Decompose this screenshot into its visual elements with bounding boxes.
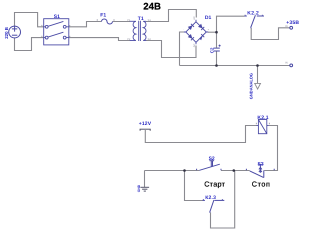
svg-text:24В: 24В (143, 2, 161, 13)
terminal In gnd (290, 64, 293, 67)
diode bridge top-left diode (188, 25, 193, 30)
wire relay coil right down to stop rail (264, 126, 277, 171)
pin ticks F1 (97, 19, 114, 20)
wire fuse to transformer P1 (113, 21, 131, 23)
fuse F1 (102, 19, 113, 24)
wire K2.2 blade to +35V terminal (251, 28, 290, 40)
svg-text:Старт: Старт (204, 179, 225, 188)
svg-text:IN: IN (285, 25, 288, 28)
diode bar bottom-left (191, 37, 194, 40)
svg-text:К2.3: К2.3 (205, 195, 216, 201)
svg-text:S3: S3 (258, 161, 264, 167)
wire switch pole2 to transformer P2 (69, 38, 130, 41)
diode bar top-left (191, 24, 194, 27)
svg-text:K2.1: K2.1 (257, 115, 268, 121)
svg-text:GNDANALOG: GNDANALOG (248, 73, 253, 99)
svg-text:S2: S2 (148, 38, 152, 41)
wire source top to switch pole1 (15, 13, 45, 27)
svg-text:AC: AC (193, 43, 196, 47)
svg-text:P2: P2 (127, 38, 131, 41)
svg-text:F1: F1 (100, 13, 106, 19)
wire ground rail (180, 65, 290, 67)
svg-text:-: - (183, 29, 184, 32)
junction node gnd analog (256, 64, 259, 67)
wire K2.3 bottom loop (211, 171, 235, 229)
junction node start left (183, 169, 186, 172)
svg-text:AC: AC (193, 16, 196, 20)
transformer T1 (130, 21, 146, 41)
svg-text:+35В: +35В (286, 20, 299, 26)
svg-text:K2.2: K2.2 (247, 10, 259, 16)
svg-text:S1: S1 (148, 19, 152, 22)
pushbutton S3 stop (246, 165, 274, 178)
wire GND rail to S2 (145, 170, 200, 172)
wire bridge plus to C2 node (208, 31, 217, 33)
wire C2 vertical (216, 32, 218, 65)
wire bridge minus to ground rail (180, 32, 185, 66)
svg-text:P1: P1 (127, 19, 131, 22)
wire source bottom to switch pole2 (15, 38, 45, 51)
power terminal +12V (140, 129, 151, 131)
voltage source 220V (9, 26, 21, 38)
junction node start right (233, 169, 236, 172)
ground GND (140, 187, 149, 191)
ground GNDANALOG (255, 83, 261, 89)
svg-text:+12V: +12V (139, 121, 152, 127)
svg-text:IN: IN (285, 62, 288, 65)
pin ticks K2.1 (256, 123, 269, 124)
wire C2 node up to K2.2 (217, 16, 245, 32)
diode bridge bottom-right diode (200, 36, 203, 41)
diode bridge bottom-left diode (188, 34, 193, 39)
svg-text:GND: GND (137, 184, 141, 192)
wire switch pole1 to fuse (69, 22, 102, 27)
svg-text:S2: S2 (209, 156, 215, 162)
junction node bridge plus (215, 31, 218, 34)
svg-text:T1: T1 (138, 16, 144, 22)
wire GND drop (144, 171, 146, 188)
wire K2.3 branch left drop (185, 171, 203, 201)
wire +12V to relay coil left (145, 126, 256, 143)
svg-text:220 В: 220 В (4, 27, 9, 39)
diode bar top-right (201, 27, 204, 30)
diode bridge top-right diode (198, 24, 203, 29)
relay contact K2.3 (203, 199, 225, 213)
wire S2 to S3 (221, 170, 250, 172)
svg-text:C2: C2 (210, 47, 215, 53)
pushbutton S2 start (197, 161, 221, 171)
junction node C2 bottom (215, 64, 218, 67)
diode bar bottom-right (201, 34, 204, 37)
diode bridge D1 (184, 20, 208, 45)
terminal +35V (290, 26, 293, 29)
svg-text:S1: S1 (54, 14, 60, 20)
svg-text:Стоп: Стоп (252, 180, 271, 189)
capacitor C2 (214, 45, 221, 51)
switch S1 (44, 19, 69, 45)
relay coil K2.1 (257, 120, 269, 134)
svg-text:D1: D1 (205, 15, 212, 21)
wire transformer S1 to bridge top (146, 10, 196, 22)
relay contact K2.2 (245, 15, 265, 29)
wire GNDANALOG drop (257, 66, 259, 84)
pin ticks S1 (42, 25, 70, 37)
wire transformer S2 to bridge bottom (146, 41, 196, 58)
